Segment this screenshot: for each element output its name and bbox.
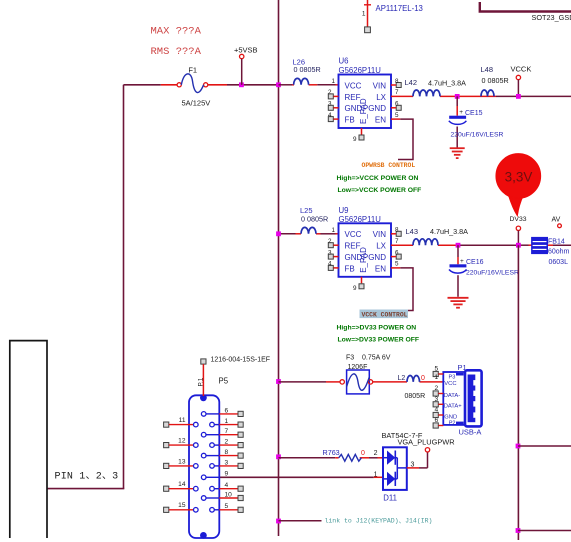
resistor R763 (323, 448, 362, 461)
svg-text:6: 6 (435, 417, 439, 424)
svg-text:2: 2 (374, 450, 378, 457)
svg-text:U9: U9 (339, 206, 349, 215)
svg-text:P3: P3 (449, 374, 456, 380)
node junction +5VSB on F1 row (239, 82, 244, 87)
svg-text:VGA_PLUGPWR: VGA_PLUGPWR (398, 437, 455, 446)
svg-text:1206F: 1206F (348, 364, 368, 371)
svg-text:L48: L48 (481, 65, 494, 74)
svg-text:0 0805R: 0 0805R (294, 65, 321, 74)
label 0 value of R763 (361, 450, 365, 457)
inductor L25 (300, 206, 328, 234)
node junction F3 row at center bus (276, 379, 281, 384)
label OPWRSB CONTROL net (362, 162, 416, 169)
label 1206F value of F3 (348, 364, 368, 371)
wire DV33 tap to right edge 2 (518, 530, 571, 532)
label G5626P11U value of U6 (339, 66, 382, 75)
svg-text:4: 4 (328, 261, 332, 268)
power +5VSB pin (234, 46, 258, 85)
label G5626P11U value of U9 (339, 215, 382, 224)
power VCCK pin (511, 65, 532, 97)
svg-text:EN: EN (375, 116, 386, 125)
svg-text:PIN 1、2、3: PIN 1、2、3 (55, 472, 119, 483)
wire P5 pin9 to D11 pin1 row (219, 476, 383, 478)
wire D11 pin3 to VGA_PLUGPWR (407, 452, 428, 468)
label U9 (339, 206, 349, 215)
wire U9 LX output row (391, 244, 571, 246)
svg-text:0603L: 0603L (549, 259, 569, 266)
svg-text:9: 9 (353, 285, 357, 292)
svg-text:CE15: CE15 (465, 110, 483, 117)
svg-text:5A/125V: 5A/125V (182, 98, 211, 107)
svg-text:VCC: VCC (345, 230, 362, 239)
svg-text:5: 5 (435, 366, 439, 373)
svg-text:5: 5 (225, 503, 229, 510)
svg-text:F1: F1 (188, 65, 197, 74)
inductor L42 (405, 78, 441, 96)
svg-text:15: 15 (178, 502, 186, 509)
op-amp regulator U6 G5626P11U (328, 75, 401, 144)
svg-text:1: 1 (225, 418, 229, 425)
svg-text:+: + (460, 258, 464, 265)
svg-text:+: + (459, 109, 463, 116)
svg-text:R763: R763 (323, 448, 340, 457)
svg-text:2: 2 (328, 89, 332, 96)
svg-text:G5626P11U: G5626P11U (339, 215, 382, 224)
label P.1 (198, 377, 205, 386)
label 1216-004-15S-1EF (211, 356, 271, 363)
label F3 0.75A 6V (346, 354, 391, 361)
svg-text:1: 1 (331, 227, 335, 234)
svg-text:DATA+: DATA+ (444, 403, 463, 409)
label VCCK CONTROL net highlighted (360, 310, 409, 319)
ground below CE16 (448, 298, 469, 308)
label F1 (188, 65, 197, 74)
svg-text:L43: L43 (406, 227, 419, 236)
svg-text:4.7uH_3.8A: 4.7uH_3.8A (430, 227, 468, 236)
svg-text:6: 6 (395, 101, 399, 108)
inductor L43 (406, 227, 439, 245)
svg-text:0 0805R: 0 0805R (482, 76, 509, 85)
svg-text:13: 13 (178, 458, 186, 465)
svg-text:4: 4 (225, 482, 229, 489)
label Low=>DV33 POWER OFF (338, 337, 420, 344)
svg-text:0: 0 (421, 375, 425, 382)
svg-text:1216-004-15S-1EF: 1216-004-15S-1EF (211, 356, 271, 363)
svg-text:220uF/16V/LESR: 220uF/16V/LESR (466, 270, 519, 277)
power DV33 pin (510, 216, 527, 245)
svg-text:MAX ???A: MAX ???A (151, 26, 202, 38)
label USB-A (459, 427, 482, 436)
svg-text:VCCK CONTROL: VCCK CONTROL (362, 312, 408, 319)
svg-text:P.1: P.1 (198, 377, 205, 386)
svg-text:D11: D11 (383, 494, 397, 503)
label SOT23_GSD (532, 13, 571, 22)
svg-text:2: 2 (435, 385, 439, 392)
wire U6 EN hook to control net (391, 119, 413, 159)
label P5 (219, 376, 229, 385)
label AP1117EL-13 (376, 4, 423, 13)
svg-text:5: 5 (395, 112, 399, 119)
svg-text:14: 14 (178, 481, 186, 488)
svg-text:11: 11 (179, 417, 186, 424)
svg-text:3: 3 (328, 101, 332, 108)
svg-text:7: 7 (395, 89, 399, 96)
svg-text:High=>DV33 POWER ON: High=>DV33 POWER ON (337, 325, 417, 332)
svg-text:0: 0 (361, 450, 365, 457)
inductor L48 (481, 65, 509, 97)
ferrite bead FB14 (532, 238, 570, 266)
power VGA_PLUGPWR pin (398, 437, 455, 452)
wire U9 EN hook to control net (391, 268, 413, 311)
svg-text:GND: GND (444, 414, 457, 420)
svg-text:6: 6 (395, 249, 399, 256)
svg-text:2: 2 (225, 439, 229, 446)
svg-text:OPWRSB CONTROL: OPWRSB CONTROL (362, 162, 416, 169)
svg-text:0 0805R: 0 0805R (301, 214, 328, 223)
svg-text:1: 1 (331, 78, 335, 85)
node junction DV33 (516, 243, 521, 248)
svg-text:4.7uH_3.8A: 4.7uH_3.8A (428, 78, 466, 87)
svg-text:SOT23_GSD: SOT23_GSD (532, 13, 571, 22)
label 4.7uH_3.8A value of L43 (430, 227, 468, 236)
svg-text:9: 9 (225, 471, 229, 478)
svg-text:8: 8 (395, 78, 399, 85)
svg-text:L2: L2 (398, 375, 406, 382)
svg-text:L42: L42 (405, 78, 418, 87)
wire DV33 vertical bus down (517, 245, 519, 540)
node junction F1 row at center bus (276, 82, 281, 87)
node junction U9 row at center bus (276, 231, 281, 236)
svg-text:0805R: 0805R (405, 393, 426, 400)
svg-text:Low=>VCCK POWER OFF: Low=>VCCK POWER OFF (338, 187, 422, 194)
inductor L26 (293, 57, 321, 85)
svg-text:CE16: CE16 (466, 259, 484, 266)
wire U9 input row L25 to chip (279, 233, 339, 235)
svg-text:4: 4 (435, 407, 439, 414)
svg-text:P5: P5 (219, 376, 229, 385)
callout balloon 3,3V (496, 154, 540, 215)
svg-text:VCC: VCC (345, 81, 362, 90)
svg-text:G5626P11U: G5626P11U (339, 66, 382, 75)
wire R763 row (279, 457, 384, 459)
label U6 (339, 56, 349, 65)
svg-text:FB: FB (345, 264, 355, 273)
node junction R763 row at center bus (276, 454, 281, 459)
connector box PIN 1-2-3 (10, 341, 47, 538)
label MAX ???A (151, 26, 202, 38)
label High=>DV33 POWER ON (337, 325, 417, 332)
label pin numbers D11 (374, 450, 415, 479)
svg-text:1: 1 (374, 472, 378, 479)
capacitor CE16 (449, 245, 484, 297)
svg-text:8: 8 (395, 227, 399, 234)
svg-text:3: 3 (225, 459, 229, 466)
svg-text:DV33: DV33 (510, 216, 527, 223)
svg-text:FB14: FB14 (548, 238, 565, 245)
wire vertical bus left (x=123.5) from F1 row down to PIN1-2-3 box (47, 85, 124, 489)
node junction DV33 bus tap 1 (516, 444, 521, 449)
fuse F1 (177, 74, 208, 93)
op-amp regulator U9 G5626P11U (328, 223, 401, 291)
svg-text:AP1117EL-13: AP1117EL-13 (376, 4, 423, 13)
connector P1 USB port (433, 366, 466, 428)
wire link note stub (279, 520, 322, 522)
svg-text:10: 10 (225, 491, 233, 498)
svg-text:4: 4 (328, 112, 332, 119)
label P1 (458, 363, 467, 372)
label 220uF/16V/LESR value of CE16 (466, 270, 519, 277)
svg-text:P2: P2 (449, 420, 456, 426)
capacitor CE15 (449, 96, 483, 147)
svg-text:2: 2 (328, 238, 332, 245)
node junction link row at center bus (276, 519, 281, 524)
fuse F3 (340, 370, 373, 394)
svg-text:Low=>DV33 POWER OFF: Low=>DV33 POWER OFF (338, 337, 420, 344)
svg-text:7: 7 (225, 428, 229, 435)
svg-text:link to J12(KEYPAD)、J14(IR): link to J12(KEYPAD)、J14(IR) (325, 518, 433, 525)
ground below CE15 (450, 148, 465, 158)
svg-text:3: 3 (435, 396, 439, 403)
label PIN 1、2、3 (55, 472, 119, 483)
label 0805R value of L2 (405, 393, 426, 400)
label High=>VCCK POWER ON (337, 175, 419, 182)
connector P5 pins 11-15 left (164, 417, 199, 512)
svg-text:+5VSB: +5VSB (234, 46, 258, 55)
svg-text:EN: EN (375, 264, 386, 273)
svg-text:9: 9 (353, 136, 357, 143)
label 4.7uH_3.8A value of L42 (428, 78, 466, 87)
svg-text:5: 5 (395, 261, 399, 268)
svg-text:LX: LX (376, 242, 386, 251)
node junction CE15 tap (455, 94, 460, 99)
svg-text:VCCK: VCCK (511, 65, 532, 74)
icon USB-A receptacle symbol (465, 370, 482, 426)
label AV net at right edge (552, 217, 562, 228)
svg-text:U6: U6 (339, 56, 349, 65)
inductor L2 (398, 375, 426, 382)
svg-text:VCC: VCC (444, 381, 456, 387)
wire F1 row y=84.8 from left bus to center bus (124, 84, 279, 86)
label RMS ???A (151, 46, 202, 58)
label Low=>VCCK POWER OFF (338, 187, 422, 194)
svg-text:High=>VCCK POWER ON: High=>VCCK POWER ON (337, 175, 419, 182)
svg-text:LX: LX (376, 93, 386, 102)
wire U6 LX output row (391, 95, 571, 97)
svg-text:E_PAD: E_PAD (359, 247, 368, 273)
wire DV33 tap to right edge 1 (518, 445, 571, 447)
svg-text:AV: AV (552, 217, 561, 224)
node junction DV33 bus tap 2 (516, 528, 521, 533)
svg-text:60ohm: 60ohm (548, 249, 570, 256)
wire vertical bus center (x=278.5) full height (278, 0, 280, 536)
svg-text:0.75A 6V: 0.75A 6V (362, 354, 391, 361)
node junction VCCK (516, 94, 521, 99)
svg-text:USB-A: USB-A (459, 427, 482, 436)
label BAT54C-7-F (382, 431, 423, 440)
wire U6 input row y=84.8 L26 to chip (279, 84, 339, 86)
svg-text:1: 1 (362, 11, 366, 18)
wire AP1117 pin stub with pin 1 (362, 0, 371, 33)
svg-text:3: 3 (328, 249, 332, 256)
label 220uF/16V/LESR value of CE15 (451, 132, 504, 139)
label link to J12(KEYPAD) J14(IR) (325, 518, 433, 525)
connector P5 pins 1-5 right (210, 418, 244, 512)
label 5A/125V value of F1 (182, 98, 211, 107)
svg-text:1: 1 (435, 374, 439, 381)
svg-text:E_PAD: E_PAD (359, 98, 368, 124)
connector P5 D-sub body (189, 394, 219, 538)
svg-text:F3: F3 (346, 354, 354, 361)
svg-text:VIN: VIN (373, 81, 387, 90)
wire P5 shield pin (201, 359, 206, 396)
diode D11 dual BAT54C (383, 447, 407, 490)
node junction CE16 tap (456, 243, 461, 248)
svg-text:3,3V: 3,3V (505, 169, 533, 184)
label D11 (383, 494, 397, 503)
svg-text:12: 12 (178, 438, 186, 445)
svg-text:RMS ???A: RMS ???A (151, 46, 202, 58)
wire F3 row (279, 381, 444, 383)
svg-text:DATA-: DATA- (444, 393, 461, 399)
svg-text:6: 6 (225, 407, 229, 414)
svg-text:220uF/16V/LESR: 220uF/16V/LESR (451, 132, 504, 139)
svg-text:FB: FB (345, 116, 355, 125)
connector P5 pins 6-10 middle (201, 407, 243, 500)
svg-text:VIN: VIN (373, 230, 387, 239)
wire SOT23 net L-shape top right (480, 2, 571, 12)
svg-text:8: 8 (225, 449, 229, 456)
svg-text:7: 7 (395, 238, 399, 245)
